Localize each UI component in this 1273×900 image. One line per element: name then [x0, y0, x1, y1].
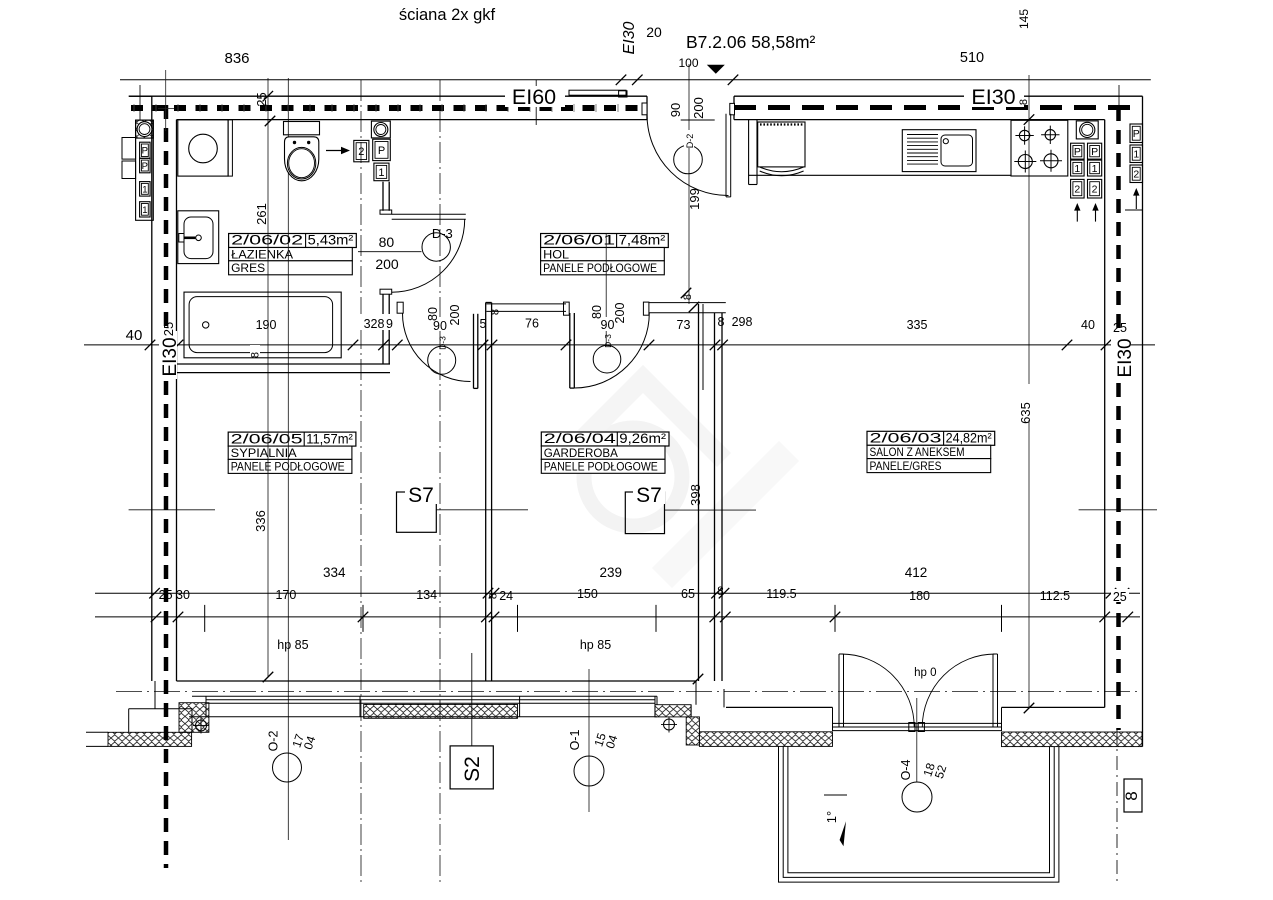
svg-text:180: 180 — [909, 589, 930, 603]
svg-text:25: 25 — [1113, 321, 1127, 335]
svg-text:25: 25 — [159, 588, 173, 602]
svg-text:20: 20 — [646, 24, 662, 40]
svg-text:P: P — [1091, 146, 1098, 158]
svg-text:hp 0: hp 0 — [914, 667, 936, 679]
svg-text:25: 25 — [1113, 590, 1127, 604]
svg-text:2: 2 — [1133, 169, 1139, 181]
svg-text:8: 8 — [490, 309, 502, 315]
svg-text:EI30: EI30 — [621, 21, 638, 54]
svg-text:2/06/01: 2/06/01 — [543, 233, 615, 248]
svg-text:7,48m²: 7,48m² — [619, 233, 666, 248]
svg-text:PANELE PODŁOGOWE: PANELE PODŁOGOWE — [544, 460, 658, 474]
svg-text:1: 1 — [1133, 149, 1139, 161]
svg-text:150: 150 — [577, 587, 598, 601]
svg-text:HOL: HOL — [543, 247, 569, 261]
svg-text:190: 190 — [256, 318, 277, 332]
svg-text:EI30: EI30 — [1115, 338, 1136, 377]
svg-text:76: 76 — [525, 317, 539, 331]
svg-text:8: 8 — [250, 352, 262, 358]
svg-text:8: 8 — [682, 294, 694, 300]
svg-text:SYPIALNIA: SYPIALNIA — [231, 446, 297, 460]
svg-text:635: 635 — [1018, 402, 1033, 424]
svg-text:8: 8 — [488, 593, 500, 599]
svg-text:24: 24 — [499, 589, 513, 603]
svg-text:EI30: EI30 — [160, 337, 181, 376]
svg-text:1: 1 — [378, 167, 384, 179]
svg-text:412: 412 — [905, 565, 928, 580]
svg-text:PANELE PODŁOGOWE: PANELE PODŁOGOWE — [543, 261, 657, 275]
svg-text:334: 334 — [323, 565, 346, 580]
svg-text:73: 73 — [677, 318, 691, 332]
svg-text:D-3: D-3 — [432, 226, 453, 241]
svg-text:1: 1 — [1074, 163, 1080, 175]
svg-text:510: 510 — [960, 50, 984, 66]
svg-text:P: P — [1133, 128, 1140, 140]
svg-text:2/06/05: 2/06/05 — [231, 431, 303, 446]
svg-text:hp 85: hp 85 — [580, 638, 611, 652]
svg-text:2/06/03: 2/06/03 — [870, 431, 942, 446]
svg-text:hp 85: hp 85 — [277, 638, 308, 652]
svg-text:336: 336 — [253, 510, 268, 532]
svg-text:2: 2 — [358, 146, 364, 158]
svg-text:8: 8 — [718, 315, 725, 329]
svg-text:PANELE/GRES: PANELE/GRES — [870, 459, 942, 473]
svg-text:O-1: O-1 — [568, 730, 582, 751]
svg-text:100: 100 — [678, 56, 698, 70]
svg-text:335: 335 — [907, 318, 928, 332]
svg-text:112.5: 112.5 — [1040, 589, 1070, 603]
svg-text:30: 30 — [176, 588, 190, 602]
svg-text:2: 2 — [1092, 183, 1098, 195]
svg-text:1: 1 — [142, 184, 147, 195]
svg-text:134: 134 — [416, 588, 437, 602]
svg-text:5,43m²: 5,43m² — [308, 233, 354, 248]
svg-text:8: 8 — [1122, 791, 1141, 800]
svg-text:2/06/04: 2/06/04 — [544, 431, 617, 446]
svg-text:EI60: EI60 — [512, 85, 556, 109]
svg-text:24,82m²: 24,82m² — [946, 431, 993, 446]
svg-text:GARDEROBA: GARDEROBA — [544, 446, 618, 460]
svg-text:836: 836 — [224, 50, 249, 67]
svg-text:5: 5 — [480, 317, 487, 331]
svg-text:170: 170 — [275, 588, 296, 602]
svg-text:S7: S7 — [408, 484, 434, 507]
svg-text:P: P — [142, 161, 148, 172]
svg-text:119.5: 119.5 — [766, 587, 796, 601]
svg-text:9: 9 — [386, 317, 393, 331]
svg-text:239: 239 — [600, 565, 623, 580]
svg-text:40: 40 — [1081, 318, 1095, 332]
svg-text:80: 80 — [426, 307, 440, 321]
svg-text:D-3: D-3 — [603, 334, 613, 348]
svg-text:11,57m²: 11,57m² — [306, 431, 353, 446]
svg-text:SALON Z ANEKSEM: SALON Z ANEKSEM — [870, 445, 965, 459]
svg-text:S2: S2 — [461, 756, 484, 782]
svg-text:D-3: D-3 — [438, 336, 448, 350]
svg-text:199: 199 — [687, 188, 702, 210]
svg-text:8: 8 — [1018, 99, 1030, 105]
svg-text:EI30: EI30 — [971, 85, 1015, 109]
svg-text:GRES: GRES — [231, 261, 265, 275]
svg-text:8: 8 — [717, 584, 724, 598]
svg-text:25: 25 — [254, 92, 269, 106]
svg-text:O-4: O-4 — [899, 760, 913, 781]
svg-text:P: P — [1074, 146, 1081, 158]
svg-text:9,26m²: 9,26m² — [619, 431, 666, 446]
svg-text:261: 261 — [254, 203, 269, 225]
svg-text:2: 2 — [1074, 183, 1080, 195]
svg-text:1: 1 — [142, 205, 147, 216]
svg-text:200: 200 — [691, 97, 706, 119]
svg-text:S7: S7 — [636, 484, 662, 507]
svg-text:P: P — [378, 145, 385, 157]
svg-text:ściana 2x gkf: ściana 2x gkf — [399, 6, 496, 24]
svg-text:2/06/02: 2/06/02 — [231, 233, 303, 248]
svg-text:328: 328 — [364, 317, 385, 331]
svg-text:80: 80 — [379, 234, 395, 250]
svg-text:200: 200 — [613, 303, 627, 324]
svg-text:65: 65 — [681, 587, 695, 601]
svg-text:200: 200 — [375, 256, 399, 272]
svg-text:145: 145 — [1017, 9, 1031, 29]
svg-text:PANELE PODŁOGOWE: PANELE PODŁOGOWE — [231, 460, 345, 474]
svg-text:80: 80 — [590, 305, 604, 319]
svg-text:25: 25 — [161, 322, 176, 336]
svg-text:P: P — [142, 146, 148, 157]
svg-text:D-2: D-2 — [685, 134, 695, 149]
svg-text:200: 200 — [448, 305, 462, 326]
svg-text:B7.2.06 58,58m²: B7.2.06 58,58m² — [686, 32, 816, 52]
svg-text:ŁAZIENKA: ŁAZIENKA — [231, 247, 293, 261]
svg-text:1: 1 — [1092, 163, 1098, 175]
svg-text:O-2: O-2 — [267, 731, 281, 752]
svg-text:298: 298 — [732, 315, 753, 329]
svg-text:1°: 1° — [824, 811, 839, 823]
svg-text:90: 90 — [668, 103, 683, 117]
svg-text:40: 40 — [126, 327, 143, 344]
svg-text:398: 398 — [688, 484, 703, 506]
